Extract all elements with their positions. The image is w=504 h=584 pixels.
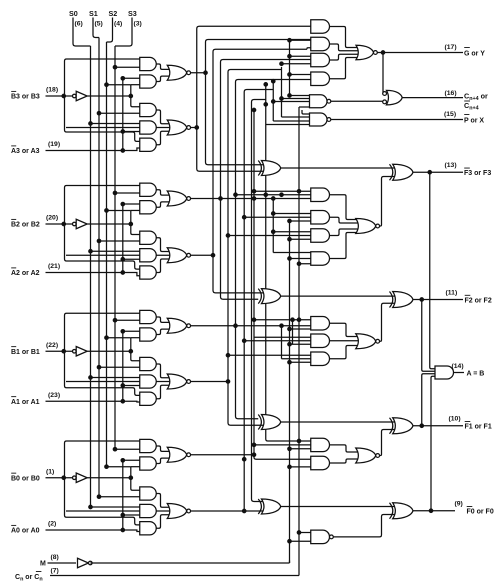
svg-text:(6): (6) [75,21,83,28]
svg-text:(1): (1) [46,468,54,475]
svg-text:(5): (5) [95,21,103,28]
svg-text:S1: S1 [89,9,98,18]
svg-text:F0 or F0: F0 or F0 [467,509,494,516]
svg-text:A3 or A3: A3 or A3 [11,148,40,155]
svg-text:(11): (11) [446,289,458,296]
svg-text:(23): (23) [48,392,60,399]
svg-text:(14): (14) [452,363,464,370]
svg-text:(3): (3) [134,21,142,28]
svg-text:B3 or B3: B3 or B3 [11,94,40,101]
svg-text:F1 or F1: F1 or F1 [465,424,492,431]
svg-text:A0 or A0: A0 or A0 [11,528,40,535]
svg-text:(17): (17) [445,44,457,51]
svg-text:P or X: P or X [464,118,484,125]
svg-text:S2: S2 [109,9,118,18]
svg-text:(2): (2) [48,521,56,528]
svg-text:(22): (22) [46,342,58,349]
svg-text:(8): (8) [51,554,59,561]
svg-text:A1 or A1: A1 or A1 [11,399,40,406]
svg-text:(15): (15) [444,111,456,118]
svg-text:(10): (10) [449,416,461,423]
svg-text:S0: S0 [69,9,78,18]
svg-text:S3: S3 [128,9,137,18]
svg-text:B0 or B0: B0 or B0 [11,475,40,482]
svg-text:(4): (4) [114,21,122,28]
svg-text:(20): (20) [46,215,58,222]
svg-text:F2 or F2: F2 or F2 [465,297,492,304]
svg-text:A = B: A = B [467,371,485,378]
svg-text:B1 or B1: B1 or B1 [11,349,40,356]
svg-text:A2 or A2: A2 or A2 [11,270,40,277]
svg-text:M: M [40,561,46,568]
svg-text:(21): (21) [48,263,60,270]
svg-text:(13): (13) [445,162,457,169]
svg-text:F3 or F3: F3 or F3 [464,170,491,177]
svg-text:(9): (9) [455,501,463,508]
svg-text:(16): (16) [445,90,457,97]
svg-text:(19): (19) [48,141,60,148]
svg-text:B2 or B2: B2 or B2 [11,222,40,229]
svg-text:(7): (7) [51,568,59,575]
svg-text:G or Y: G or Y [464,51,485,58]
svg-text:(18): (18) [46,87,58,94]
